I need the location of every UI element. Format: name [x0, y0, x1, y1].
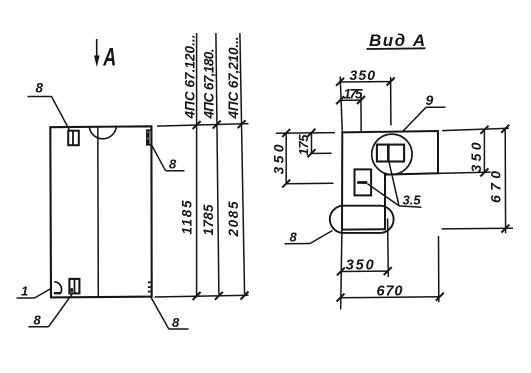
svg-text:175: 175: [344, 87, 363, 102]
svg-text:8: 8: [172, 315, 180, 330]
corner detail (1) bottom-left: [54, 282, 62, 294]
L-shaped plan outline: [342, 131, 438, 230]
lower embed plate: [355, 169, 372, 195]
bottom dim 670: [337, 284, 444, 302]
embed plate top-right (8): [147, 130, 152, 145]
svg-text:4ПС 67.120...: 4ПС 67.120...: [182, 35, 197, 120]
svg-text:670: 670: [377, 284, 403, 300]
left ext lines: [276, 133, 335, 184]
top dim 175: [336, 87, 365, 132]
embed plate bottom-left (8): [69, 279, 79, 294]
bottom ext verticals: [341, 219, 439, 310]
slot detail (8) stadium: [330, 206, 394, 233]
anchor plate in circle: [377, 145, 404, 162]
svg-text:1785: 1785: [201, 204, 216, 235]
svg-text:1185: 1185: [180, 200, 195, 234]
svg-text:8: 8: [34, 312, 42, 327]
svg-text:4ПС 67,180.: 4ПС 67,180.: [202, 49, 217, 120]
svg-text:8: 8: [290, 230, 298, 245]
svg-text:175: 175: [296, 134, 311, 156]
svg-text:670: 670: [488, 171, 504, 203]
view title: [367, 31, 427, 50]
svg-text:350: 350: [271, 144, 287, 174]
dimension line 2085: [240, 33, 245, 296]
leader label 8 top-right: [151, 145, 184, 172]
leader label 8 stadium: [285, 230, 333, 245]
top dim 350: [336, 67, 395, 132]
leader label 8 bottom-right: [151, 297, 189, 330]
right bottom ext: [442, 227, 514, 230]
leader label 1 bottom-left: [17, 284, 52, 299]
svg-text:350: 350: [468, 142, 484, 172]
hidden embed dashes bottom-right: [148, 282, 151, 291]
right dim 670: [488, 125, 510, 234]
svg-text:4ПС 67,210...: 4ПС 67,210...: [226, 37, 241, 120]
ticks on extension lines: [193, 120, 249, 300]
svg-text:9: 9: [426, 92, 434, 108]
dimension line 1785: [216, 33, 219, 296]
right ext top: [442, 128, 509, 130]
extension line bottom: [155, 295, 249, 297]
dimension line 1185: [196, 33, 198, 296]
panel outline (elevation): [50, 126, 151, 297]
svg-text:350: 350: [350, 67, 376, 83]
leader label 8 bottom-left: [29, 294, 73, 328]
right mid ext: [438, 172, 490, 173]
svg-text:1: 1: [21, 284, 28, 299]
svg-text:3.5: 3.5: [403, 192, 422, 207]
extension line top: [157, 124, 249, 127]
svg-text:8: 8: [169, 157, 177, 172]
leader label 8 top-left: [28, 81, 70, 131]
left dim 175: [296, 129, 316, 158]
bottom dim 350: [337, 258, 392, 276]
left dim 350: [271, 129, 291, 188]
lifting loop arc: [89, 127, 116, 139]
svg-text:8: 8: [36, 81, 44, 96]
section arrow A: [94, 39, 116, 71]
leader label 9: [402, 92, 446, 132]
embed plate top-left (8): [68, 131, 79, 146]
svg-text:А: А: [102, 43, 116, 72]
leader label 3.5: [368, 162, 422, 207]
anchor circle (9): [372, 134, 412, 174]
right dim 350: [468, 126, 488, 177]
panel joint line: [97, 127, 100, 297]
svg-text:Вид А: Вид А: [369, 31, 427, 50]
svg-text:350: 350: [346, 258, 374, 274]
